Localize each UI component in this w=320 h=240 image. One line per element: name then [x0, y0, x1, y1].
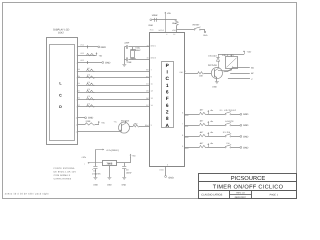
svg-text:15: 15 — [146, 57, 148, 60]
svg-text:REV 1.0: REV 1.0 — [236, 192, 245, 195]
svg-text:+5v: +5v — [114, 120, 117, 123]
svg-text:AJUSTE: AJUSTE — [225, 120, 234, 123]
svg-text:RB2: RB2 — [185, 136, 189, 139]
svg-text:470: 470 — [87, 81, 90, 84]
svg-text:+5v: +5v — [210, 109, 213, 112]
svg-text:+5v: +5v — [210, 131, 213, 134]
svg-text:11: 11 — [76, 124, 78, 127]
svg-text:S1 UP/PROG: S1 UP/PROG — [220, 109, 237, 112]
svg-text:4: 4 — [166, 33, 167, 36]
svg-text:GND: GND — [107, 184, 112, 187]
svg-text:100NF: 100NF — [126, 171, 133, 174]
svg-text:+5v: +5v — [210, 142, 213, 145]
svg-text:D6: D6 — [146, 97, 148, 100]
svg-text:D5: D5 — [146, 90, 148, 93]
svg-text:7805: 7805 — [107, 162, 113, 165]
svg-text:C: C — [165, 76, 169, 82]
svg-text:4K7: 4K7 — [87, 67, 90, 70]
svg-text:470: 470 — [87, 102, 90, 105]
svg-text:PICSOURCE: PICSOURCE — [231, 175, 266, 182]
svg-text:11: 11 — [151, 83, 153, 86]
svg-text:100NF: 100NF — [152, 14, 159, 17]
svg-text:470: 470 — [87, 74, 90, 77]
svg-text:1: 1 — [84, 163, 85, 166]
svg-text:BC548: BC548 — [208, 64, 217, 67]
svg-text:470: 470 — [87, 95, 90, 98]
svg-text:5: 5 — [167, 163, 168, 166]
svg-text:1N4148: 1N4148 — [208, 54, 217, 57]
svg-text:2: 2 — [77, 54, 78, 57]
svg-text:GND: GND — [93, 184, 98, 187]
svg-text:A: A — [165, 123, 169, 129]
svg-text:12: 12 — [151, 90, 153, 93]
svg-text:4MHZ: 4MHZ — [135, 49, 141, 52]
svg-text:7: 7 — [182, 123, 183, 126]
svg-text:anexo 10 d 16 de n30 / pack n: anexo 10 d 16 de n30 / pack night — [5, 193, 49, 196]
svg-text:GND: GND — [212, 86, 217, 89]
svg-text:RA5: RA5 — [150, 28, 154, 31]
svg-text:PAGE 1: PAGE 1 — [270, 193, 279, 196]
svg-text:05/01/2007: 05/01/2007 — [235, 196, 247, 199]
svg-text:22NF: 22NF — [127, 61, 133, 64]
svg-text:12: 12 — [76, 131, 78, 134]
svg-text:S4: S4 — [226, 142, 230, 145]
svg-text:+5v: +5v — [210, 120, 213, 123]
svg-text:470UF/25: 470UF/25 — [92, 172, 100, 175]
svg-text:1: 1 — [166, 83, 169, 89]
svg-text:D4: D4 — [146, 83, 148, 86]
svg-text:FONTE EXTERNA: FONTE EXTERNA — [54, 167, 75, 170]
svg-text:+12v (RELE): +12v (RELE) — [106, 149, 119, 152]
svg-text:9: 9 — [151, 75, 152, 78]
svg-text:D5: D5 — [77, 89, 79, 92]
svg-text:GND: GND — [243, 135, 249, 138]
svg-text:2: 2 — [166, 109, 169, 115]
svg-text:GND: GND — [105, 61, 111, 64]
svg-text:GND: GND — [148, 24, 153, 27]
svg-text:220R: 220R — [86, 120, 91, 123]
svg-text:OSC1: OSC1 — [151, 44, 156, 47]
svg-text:F: F — [166, 96, 169, 102]
svg-text:16: 16 — [146, 44, 148, 47]
svg-text:7: 7 — [151, 69, 152, 72]
svg-text:GND: GND — [122, 184, 127, 187]
svg-text:OSC2: OSC2 — [151, 57, 156, 60]
svg-text:GND: GND — [243, 146, 249, 149]
svg-text:GND: GND — [101, 46, 107, 49]
svg-text:RESET: RESET — [193, 24, 201, 27]
svg-text:13: 13 — [151, 97, 153, 100]
svg-text:VDD: VDD — [172, 29, 177, 32]
svg-text:10: 10 — [76, 117, 78, 120]
svg-text:14: 14 — [173, 33, 175, 36]
svg-text:8: 8 — [182, 134, 183, 137]
svg-text:GND: GND — [243, 124, 249, 127]
svg-text:RB0: RB0 — [185, 114, 189, 117]
svg-text:COM 500MA E: COM 500MA E — [54, 174, 71, 177]
svg-text:CLAUDIO LARIOS: CLAUDIO LARIOS — [201, 193, 222, 196]
svg-text:TIMER ON/OFF CICLICO: TIMER ON/OFF CICLICO — [213, 184, 284, 191]
svg-text:C2: C2 — [93, 169, 95, 172]
svg-text:9: 9 — [182, 145, 183, 148]
svg-text:BC548: BC548 — [121, 119, 129, 122]
svg-text:14: 14 — [151, 104, 153, 107]
svg-text:1: 1 — [185, 70, 186, 73]
svg-text:S3 DN: S3 DN — [223, 131, 231, 134]
svg-text:10K: 10K — [199, 75, 203, 78]
svg-text:D7: D7 — [77, 104, 79, 107]
svg-text:RB3: RB3 — [185, 147, 189, 150]
svg-text:RELE 12V: RELE 12V — [222, 54, 234, 57]
svg-text:10K: 10K — [172, 22, 176, 25]
svg-text:C3: C3 — [126, 168, 128, 171]
svg-text:GND: GND — [88, 117, 94, 120]
svg-text:NO: NO — [251, 66, 254, 69]
svg-text:D4: D4 — [77, 82, 79, 85]
svg-text:GND: GND — [243, 113, 249, 116]
svg-text:DE 9VDC 1.0A-12V: DE 9VDC 1.0A-12V — [54, 170, 77, 173]
svg-text:CAPACITORES: CAPACITORES — [54, 178, 72, 181]
svg-text:6: 6 — [166, 103, 169, 109]
svg-text:16X2: 16X2 — [58, 31, 64, 34]
svg-text:6: 6 — [166, 90, 169, 96]
svg-text:MCLR: MCLR — [159, 29, 165, 32]
svg-text:470: 470 — [87, 88, 90, 91]
svg-text:1: 1 — [77, 46, 78, 49]
svg-text:GND: GND — [159, 168, 164, 171]
svg-text:D6: D6 — [77, 97, 79, 100]
svg-text:8: 8 — [166, 116, 169, 122]
svg-text:GND: GND — [168, 177, 174, 180]
svg-text:D7: D7 — [146, 104, 148, 107]
svg-text:GND: GND — [203, 34, 208, 37]
svg-text:RB4: RB4 — [145, 124, 149, 127]
svg-text:D: D — [59, 105, 62, 109]
svg-text:3: 3 — [77, 61, 78, 64]
svg-text:RB1: RB1 — [180, 71, 184, 74]
svg-text:RB1: RB1 — [185, 125, 189, 128]
svg-text:3: 3 — [151, 124, 152, 127]
svg-text:22NF: 22NF — [124, 41, 130, 44]
svg-text:6: 6 — [182, 112, 183, 115]
svg-text:C: C — [59, 93, 62, 97]
